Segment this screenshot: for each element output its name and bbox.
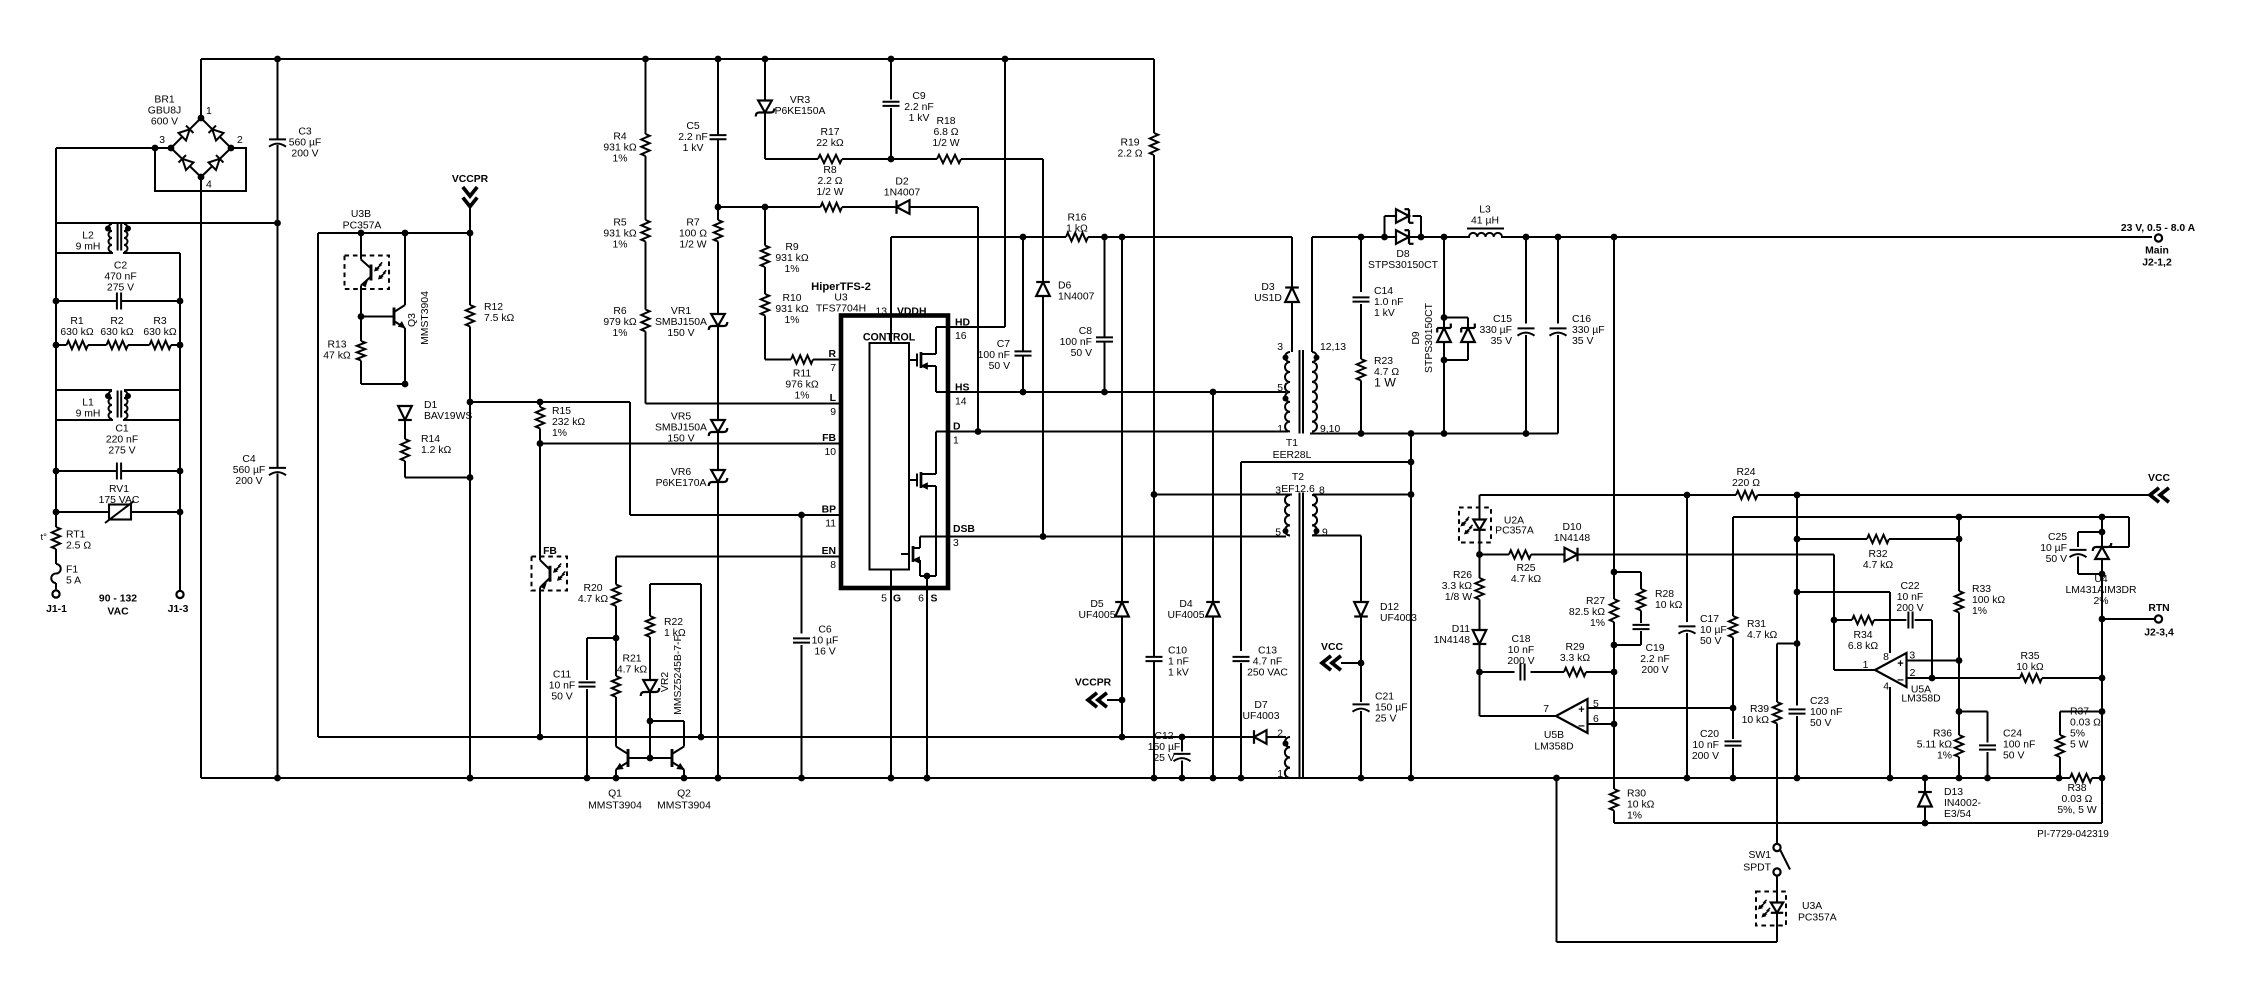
svg-text:4.7 kΩ: 4.7 kΩ bbox=[617, 664, 648, 675]
svg-text:R8: R8 bbox=[823, 165, 837, 176]
svg-text:R27: R27 bbox=[1586, 596, 1605, 607]
svg-text:1%: 1% bbox=[1972, 606, 1987, 617]
svg-text:R19: R19 bbox=[1120, 137, 1139, 148]
svg-text:1N4148: 1N4148 bbox=[1434, 635, 1471, 646]
svg-text:T1: T1 bbox=[1286, 438, 1298, 449]
svg-text:150 µF: 150 µF bbox=[1375, 702, 1408, 713]
svg-text:R34: R34 bbox=[1853, 630, 1872, 641]
svg-text:IN4002-: IN4002- bbox=[1944, 798, 1981, 809]
svg-text:100 kΩ: 100 kΩ bbox=[1972, 595, 2005, 606]
svg-text:560 µF: 560 µF bbox=[289, 137, 322, 148]
svg-text:C14: C14 bbox=[1374, 286, 1393, 297]
svg-text:10 µF: 10 µF bbox=[1700, 625, 1727, 636]
svg-text:U5B: U5B bbox=[1544, 730, 1564, 741]
svg-text:D10: D10 bbox=[1562, 522, 1581, 533]
svg-text:D3: D3 bbox=[1261, 282, 1275, 293]
svg-text:LM358D: LM358D bbox=[1901, 694, 1940, 705]
svg-text:50 V: 50 V bbox=[989, 361, 1010, 372]
svg-text:150 µF: 150 µF bbox=[1148, 742, 1181, 753]
svg-text:50 V: 50 V bbox=[1071, 348, 1092, 359]
svg-text:J2-1,2: J2-1,2 bbox=[2142, 258, 2172, 269]
svg-text:D12: D12 bbox=[1380, 602, 1399, 613]
svg-text:35 V: 35 V bbox=[1491, 336, 1512, 347]
svg-text:MMST3904: MMST3904 bbox=[588, 801, 642, 812]
svg-text:200 V: 200 V bbox=[1507, 656, 1534, 667]
svg-text:UF4005: UF4005 bbox=[1168, 610, 1205, 621]
svg-text:630 kΩ: 630 kΩ bbox=[143, 327, 176, 338]
svg-text:1%: 1% bbox=[784, 264, 799, 275]
svg-text:50 V: 50 V bbox=[1700, 636, 1721, 647]
svg-text:5: 5 bbox=[1275, 528, 1281, 539]
svg-text:1 kΩ: 1 kΩ bbox=[1066, 223, 1088, 234]
svg-text:R13: R13 bbox=[327, 339, 346, 350]
svg-text:1/2 W: 1/2 W bbox=[679, 239, 706, 250]
svg-text:U4: U4 bbox=[2094, 574, 2108, 585]
svg-text:560 µF: 560 µF bbox=[233, 465, 266, 476]
svg-text:C5: C5 bbox=[686, 121, 700, 132]
svg-text:275 V: 275 V bbox=[108, 445, 135, 456]
svg-text:150 V: 150 V bbox=[667, 433, 694, 444]
svg-text:US1D: US1D bbox=[1254, 293, 1282, 304]
svg-text:J1-1: J1-1 bbox=[46, 604, 67, 615]
svg-text:10 µF: 10 µF bbox=[2040, 543, 2067, 554]
svg-text:STPS30150CT: STPS30150CT bbox=[1424, 302, 1435, 373]
svg-text:BAV19WS: BAV19WS bbox=[424, 411, 472, 422]
svg-text:STPS30150CT: STPS30150CT bbox=[1368, 260, 1439, 271]
svg-text:1/8 W: 1/8 W bbox=[1445, 592, 1472, 603]
svg-text:5: 5 bbox=[881, 594, 887, 605]
svg-text:R15: R15 bbox=[552, 406, 571, 417]
svg-text:J1-3: J1-3 bbox=[168, 604, 189, 615]
svg-text:RTN: RTN bbox=[2148, 603, 2169, 614]
svg-text:SMBJ150A: SMBJ150A bbox=[655, 422, 707, 433]
svg-text:–: – bbox=[1578, 718, 1585, 732]
svg-text:R21: R21 bbox=[622, 653, 641, 664]
svg-text:C3: C3 bbox=[298, 126, 312, 137]
svg-text:PI-7729-042319: PI-7729-042319 bbox=[2037, 829, 2109, 840]
svg-text:D9: D9 bbox=[1411, 331, 1422, 345]
svg-text:L2: L2 bbox=[82, 230, 94, 241]
svg-text:C6: C6 bbox=[818, 624, 832, 635]
svg-text:VR2: VR2 bbox=[660, 672, 671, 692]
svg-text:931 kΩ: 931 kΩ bbox=[775, 304, 808, 315]
svg-text:VCCPR: VCCPR bbox=[452, 174, 489, 185]
svg-text:D5: D5 bbox=[1090, 599, 1104, 610]
svg-text:SPDT: SPDT bbox=[1743, 863, 1771, 874]
svg-text:LM431AIM3DR: LM431AIM3DR bbox=[2065, 585, 2137, 596]
svg-text:1N4148: 1N4148 bbox=[1554, 533, 1591, 544]
svg-text:R12: R12 bbox=[484, 302, 503, 313]
svg-text:1N4007: 1N4007 bbox=[884, 187, 921, 198]
svg-text:CONTROL: CONTROL bbox=[863, 332, 916, 344]
svg-text:220 nF: 220 nF bbox=[106, 434, 138, 445]
svg-text:3.3 kΩ: 3.3 kΩ bbox=[1560, 653, 1591, 664]
svg-text:C16: C16 bbox=[1572, 314, 1591, 325]
svg-text:GBU8J: GBU8J bbox=[148, 105, 182, 116]
svg-text:5 W: 5 W bbox=[2070, 739, 2089, 750]
svg-text:2.2 nF: 2.2 nF bbox=[678, 132, 707, 143]
svg-text:100 nF: 100 nF bbox=[1810, 707, 1842, 718]
svg-text:2%: 2% bbox=[2093, 596, 2108, 607]
svg-text:931 kΩ: 931 kΩ bbox=[775, 253, 808, 264]
svg-text:200 V: 200 V bbox=[235, 476, 262, 487]
svg-text:6: 6 bbox=[1593, 714, 1599, 725]
svg-text:C2: C2 bbox=[114, 260, 128, 271]
svg-text:F1: F1 bbox=[66, 564, 78, 575]
svg-text:P6KE170A: P6KE170A bbox=[656, 478, 707, 489]
svg-text:VR3: VR3 bbox=[790, 95, 810, 106]
svg-text:R10: R10 bbox=[782, 293, 801, 304]
svg-text:47 kΩ: 47 kΩ bbox=[323, 350, 351, 361]
svg-text:200 V: 200 V bbox=[291, 148, 318, 159]
svg-text:13: 13 bbox=[875, 307, 887, 318]
svg-text:C4: C4 bbox=[242, 454, 256, 465]
svg-text:EF12.6: EF12.6 bbox=[1281, 484, 1315, 495]
svg-text:L3: L3 bbox=[1479, 204, 1491, 215]
svg-text:3: 3 bbox=[159, 135, 165, 146]
svg-text:R24: R24 bbox=[1736, 467, 1755, 478]
svg-text:Q2: Q2 bbox=[677, 789, 691, 800]
svg-text:MMST3904: MMST3904 bbox=[657, 801, 711, 812]
svg-text:1/2 W: 1/2 W bbox=[932, 138, 959, 149]
svg-text:10: 10 bbox=[824, 447, 836, 458]
svg-text:R33: R33 bbox=[1972, 584, 1991, 595]
svg-text:Main: Main bbox=[2145, 246, 2169, 257]
svg-text:R22: R22 bbox=[664, 617, 683, 628]
svg-text:11: 11 bbox=[825, 519, 836, 530]
svg-text:R4: R4 bbox=[613, 131, 627, 142]
svg-text:250 VAC: 250 VAC bbox=[1247, 667, 1288, 678]
svg-text:25 V: 25 V bbox=[1375, 713, 1396, 724]
svg-text:10 nF: 10 nF bbox=[1897, 592, 1924, 603]
svg-text:SW1: SW1 bbox=[1748, 850, 1771, 861]
svg-text:330 µF: 330 µF bbox=[1479, 325, 1512, 336]
svg-text:VDDH: VDDH bbox=[897, 307, 926, 318]
svg-text:600 V: 600 V bbox=[151, 116, 178, 127]
svg-text:175 VAC: 175 VAC bbox=[99, 495, 140, 506]
svg-text:50 V: 50 V bbox=[2003, 750, 2024, 761]
svg-text:100 nF: 100 nF bbox=[978, 350, 1010, 361]
svg-text:C8: C8 bbox=[1079, 326, 1093, 337]
svg-text:U3: U3 bbox=[834, 293, 848, 304]
svg-text:275 V: 275 V bbox=[107, 282, 134, 293]
svg-text:RV1: RV1 bbox=[109, 484, 129, 495]
svg-text:1 W: 1 W bbox=[1374, 376, 1396, 390]
svg-text:1: 1 bbox=[206, 106, 212, 117]
svg-text:R26: R26 bbox=[1453, 570, 1472, 581]
svg-text:C22: C22 bbox=[1900, 581, 1919, 592]
svg-text:R17: R17 bbox=[820, 127, 839, 138]
svg-text:R20: R20 bbox=[583, 583, 602, 594]
svg-text:T2: T2 bbox=[1292, 472, 1304, 483]
svg-text:C19: C19 bbox=[1645, 643, 1664, 654]
svg-text:6: 6 bbox=[918, 594, 924, 605]
svg-text:100 Ω: 100 Ω bbox=[679, 228, 707, 239]
svg-text:100 nF: 100 nF bbox=[2003, 739, 2035, 750]
svg-text:UF4005: UF4005 bbox=[1079, 610, 1116, 621]
svg-text:8: 8 bbox=[830, 560, 836, 571]
svg-text:0.03 Ω: 0.03 Ω bbox=[2070, 717, 2101, 728]
svg-text:C12: C12 bbox=[1154, 731, 1173, 742]
svg-text:7: 7 bbox=[1543, 704, 1549, 715]
svg-text:9: 9 bbox=[1322, 528, 1328, 539]
svg-text:10 kΩ: 10 kΩ bbox=[1742, 715, 1770, 726]
svg-text:G: G bbox=[893, 594, 901, 605]
svg-text:100 nF: 100 nF bbox=[1060, 337, 1092, 348]
svg-text:200 V: 200 V bbox=[1692, 751, 1719, 762]
svg-text:C13: C13 bbox=[1258, 645, 1277, 656]
svg-text:16: 16 bbox=[955, 331, 967, 342]
svg-text:5 A: 5 A bbox=[66, 575, 81, 586]
svg-text:16 V: 16 V bbox=[814, 646, 835, 657]
svg-text:10 kΩ: 10 kΩ bbox=[1655, 600, 1683, 611]
svg-text:Q1: Q1 bbox=[608, 789, 622, 800]
svg-text:TFS7704H: TFS7704H bbox=[816, 304, 866, 315]
svg-text:R6: R6 bbox=[613, 306, 627, 317]
svg-text:R31: R31 bbox=[1747, 619, 1766, 630]
svg-text:C10: C10 bbox=[1168, 645, 1187, 656]
svg-text:R38: R38 bbox=[2067, 783, 2086, 794]
svg-text:L1: L1 bbox=[82, 397, 94, 408]
svg-text:+: + bbox=[1897, 658, 1903, 670]
svg-text:PC357A: PC357A bbox=[1798, 913, 1837, 924]
svg-text:C20: C20 bbox=[1700, 729, 1719, 740]
svg-text:1/2 W: 1/2 W bbox=[816, 187, 843, 198]
svg-text:10 nF: 10 nF bbox=[549, 680, 576, 691]
svg-text:–: – bbox=[1897, 672, 1904, 686]
svg-text:1 nF: 1 nF bbox=[1168, 656, 1189, 667]
svg-text:HiperTFS-2: HiperTFS-2 bbox=[811, 281, 871, 293]
svg-text:R16: R16 bbox=[1067, 212, 1086, 223]
svg-text:C24: C24 bbox=[2003, 728, 2022, 739]
svg-text:4.7 kΩ: 4.7 kΩ bbox=[1747, 630, 1778, 641]
svg-text:6.8 kΩ: 6.8 kΩ bbox=[1848, 641, 1879, 652]
svg-text:RT1: RT1 bbox=[66, 529, 86, 540]
svg-text:R1: R1 bbox=[70, 316, 84, 327]
svg-text:10 kΩ: 10 kΩ bbox=[2016, 662, 2044, 673]
svg-text:4.7 kΩ: 4.7 kΩ bbox=[578, 594, 609, 605]
svg-text:R18: R18 bbox=[936, 116, 955, 127]
svg-text:R30: R30 bbox=[1627, 788, 1646, 799]
svg-text:+: + bbox=[1578, 704, 1584, 716]
svg-text:4.7 kΩ: 4.7 kΩ bbox=[1511, 574, 1542, 585]
svg-text:R7: R7 bbox=[686, 217, 700, 228]
svg-text:FB: FB bbox=[822, 433, 836, 444]
svg-text:6.8 Ω: 6.8 Ω bbox=[933, 127, 958, 138]
svg-text:D11: D11 bbox=[1452, 624, 1471, 635]
svg-text:2: 2 bbox=[1277, 729, 1283, 740]
svg-text:4: 4 bbox=[1883, 682, 1889, 693]
svg-text:L: L bbox=[830, 393, 837, 404]
svg-text:10 kΩ: 10 kΩ bbox=[1627, 799, 1655, 810]
svg-text:P6KE150A: P6KE150A bbox=[775, 106, 826, 117]
svg-text:50 V: 50 V bbox=[1810, 718, 1831, 729]
svg-text:1: 1 bbox=[1277, 769, 1283, 780]
svg-text:2: 2 bbox=[237, 135, 243, 146]
svg-text:1 kV: 1 kV bbox=[1168, 667, 1189, 678]
svg-text:976 kΩ: 976 kΩ bbox=[785, 379, 818, 390]
svg-text:1.0 nF: 1.0 nF bbox=[1374, 297, 1403, 308]
svg-text:S: S bbox=[931, 594, 938, 605]
svg-text:23 V, 0.5 - 8.0 A: 23 V, 0.5 - 8.0 A bbox=[2121, 223, 2196, 234]
svg-text:3: 3 bbox=[1277, 342, 1283, 353]
svg-text:10 µF: 10 µF bbox=[812, 635, 839, 646]
svg-text:1%: 1% bbox=[552, 428, 567, 439]
svg-text:R: R bbox=[828, 349, 836, 360]
svg-text:R35: R35 bbox=[2020, 651, 2039, 662]
svg-text:C25: C25 bbox=[2048, 532, 2067, 543]
svg-text:1: 1 bbox=[1863, 660, 1869, 671]
svg-text:5%, 5 W: 5%, 5 W bbox=[2057, 805, 2096, 816]
svg-text:931 kΩ: 931 kΩ bbox=[603, 142, 636, 153]
svg-text:FB: FB bbox=[543, 546, 557, 557]
svg-text:25 V: 25 V bbox=[1153, 753, 1174, 764]
svg-text:4: 4 bbox=[206, 180, 212, 191]
svg-text:2.2 nF: 2.2 nF bbox=[904, 102, 933, 113]
svg-text:3: 3 bbox=[1275, 485, 1281, 496]
svg-text:2.2 Ω: 2.2 Ω bbox=[1117, 148, 1142, 159]
svg-text:10 nF: 10 nF bbox=[1692, 740, 1719, 751]
svg-text:LM358D: LM358D bbox=[1534, 742, 1573, 753]
svg-text:9: 9 bbox=[830, 407, 836, 418]
svg-text:1.2 kΩ: 1.2 kΩ bbox=[421, 445, 452, 456]
svg-text:5%: 5% bbox=[2070, 728, 2085, 739]
svg-text:5.11 kΩ: 5.11 kΩ bbox=[1917, 739, 1953, 750]
svg-text:200 V: 200 V bbox=[1641, 665, 1668, 676]
svg-text:R2: R2 bbox=[110, 316, 124, 327]
svg-text:50 V: 50 V bbox=[2046, 554, 2067, 565]
svg-text:0.03 Ω: 0.03 Ω bbox=[2062, 794, 2093, 805]
svg-text:7.5 kΩ: 7.5 kΩ bbox=[484, 313, 515, 324]
svg-text:VAC: VAC bbox=[107, 607, 129, 618]
svg-text:9 mH: 9 mH bbox=[76, 241, 101, 252]
svg-text:R23: R23 bbox=[1374, 356, 1393, 367]
svg-text:PC357A: PC357A bbox=[343, 221, 382, 232]
svg-text:41 µH: 41 µH bbox=[1471, 215, 1499, 226]
svg-text:Q3: Q3 bbox=[407, 313, 418, 327]
svg-text:630 kΩ: 630 kΩ bbox=[100, 327, 133, 338]
svg-text:220 Ω: 220 Ω bbox=[1732, 478, 1760, 489]
svg-text:SMBJ150A: SMBJ150A bbox=[655, 317, 707, 328]
svg-text:E3/54: E3/54 bbox=[1944, 809, 1971, 820]
svg-text:C18: C18 bbox=[1511, 634, 1530, 645]
svg-text:3: 3 bbox=[953, 538, 959, 549]
svg-text:R5: R5 bbox=[613, 217, 627, 228]
svg-text:470 nF: 470 nF bbox=[104, 271, 136, 282]
svg-text:1%: 1% bbox=[1590, 618, 1605, 629]
svg-text:R37: R37 bbox=[2070, 706, 2089, 717]
svg-text:22 kΩ: 22 kΩ bbox=[816, 138, 844, 149]
svg-text:10 nF: 10 nF bbox=[1508, 645, 1535, 656]
svg-text:VCCPR: VCCPR bbox=[1075, 678, 1112, 689]
svg-text:200 V: 200 V bbox=[1896, 603, 1923, 614]
svg-text:1%: 1% bbox=[612, 153, 627, 164]
svg-text:C7: C7 bbox=[997, 339, 1011, 350]
svg-text:1%: 1% bbox=[784, 315, 799, 326]
svg-text:5: 5 bbox=[1277, 383, 1283, 394]
svg-text:1N4007: 1N4007 bbox=[1058, 291, 1095, 302]
svg-text:1 kV: 1 kV bbox=[683, 143, 704, 154]
svg-text:C11: C11 bbox=[553, 669, 572, 680]
svg-text:D6: D6 bbox=[1058, 280, 1072, 291]
svg-text:9 mH: 9 mH bbox=[76, 408, 101, 419]
svg-text:VR5: VR5 bbox=[671, 411, 691, 422]
svg-text:R39: R39 bbox=[1750, 704, 1769, 715]
svg-text:1 kV: 1 kV bbox=[909, 113, 930, 124]
svg-text:90 - 132: 90 - 132 bbox=[99, 594, 137, 605]
svg-text:R25: R25 bbox=[1516, 563, 1535, 574]
svg-text:1%: 1% bbox=[794, 390, 809, 401]
svg-text:979 kΩ: 979 kΩ bbox=[603, 317, 636, 328]
svg-text:1%: 1% bbox=[612, 328, 627, 339]
svg-text:2.2 nF: 2.2 nF bbox=[1640, 654, 1669, 665]
svg-text:MMSZ5245B-7-F: MMSZ5245B-7-F bbox=[673, 635, 684, 715]
svg-text:3.3 kΩ: 3.3 kΩ bbox=[1442, 581, 1473, 592]
svg-text:1%: 1% bbox=[612, 239, 627, 250]
svg-text:MMST3904: MMST3904 bbox=[420, 291, 431, 345]
svg-text:R14: R14 bbox=[421, 434, 440, 445]
svg-text:1 kV: 1 kV bbox=[1374, 308, 1395, 319]
svg-text:330 µF: 330 µF bbox=[1572, 325, 1605, 336]
svg-text:4.7 nF: 4.7 nF bbox=[1253, 656, 1282, 667]
svg-text:D2: D2 bbox=[895, 176, 909, 187]
svg-text:R3: R3 bbox=[153, 316, 167, 327]
svg-text:82.5 kΩ: 82.5 kΩ bbox=[1569, 607, 1605, 618]
svg-text:150 V: 150 V bbox=[667, 328, 694, 339]
svg-text:VR1: VR1 bbox=[671, 306, 691, 317]
svg-text:14: 14 bbox=[955, 397, 967, 408]
svg-text:4.7 kΩ: 4.7 kΩ bbox=[1863, 560, 1894, 571]
svg-text:VCC: VCC bbox=[1321, 642, 1343, 653]
svg-text:D1: D1 bbox=[424, 400, 438, 411]
svg-text:VR6: VR6 bbox=[671, 467, 691, 478]
svg-text:1: 1 bbox=[1277, 424, 1283, 435]
svg-text:PC357A: PC357A bbox=[1495, 525, 1534, 536]
svg-text:t°: t° bbox=[41, 532, 48, 543]
svg-text:C1: C1 bbox=[115, 423, 129, 434]
svg-text:931 kΩ: 931 kΩ bbox=[603, 228, 636, 239]
svg-text:J2-3,4: J2-3,4 bbox=[2144, 628, 2174, 639]
svg-text:R11: R11 bbox=[793, 368, 812, 379]
svg-text:50 V: 50 V bbox=[551, 691, 572, 702]
svg-text:C21: C21 bbox=[1375, 691, 1394, 702]
svg-text:R32: R32 bbox=[1868, 549, 1887, 560]
svg-text:R9: R9 bbox=[785, 242, 799, 253]
svg-text:1%: 1% bbox=[1937, 750, 1952, 761]
svg-text:2.5 Ω: 2.5 Ω bbox=[66, 540, 91, 551]
svg-text:12,13: 12,13 bbox=[1320, 342, 1346, 353]
svg-text:232 kΩ: 232 kΩ bbox=[552, 417, 585, 428]
svg-text:1: 1 bbox=[953, 436, 959, 447]
svg-text:R29: R29 bbox=[1565, 642, 1584, 653]
svg-text:2.2 Ω: 2.2 Ω bbox=[817, 176, 842, 187]
svg-text:DSB: DSB bbox=[953, 524, 975, 535]
svg-text:1%: 1% bbox=[1627, 810, 1642, 821]
svg-text:C17: C17 bbox=[1700, 614, 1719, 625]
svg-text:R28: R28 bbox=[1655, 589, 1674, 600]
svg-text:C23: C23 bbox=[1810, 696, 1829, 707]
svg-text:VCC: VCC bbox=[2148, 473, 2170, 484]
svg-text:C15: C15 bbox=[1493, 314, 1512, 325]
svg-text:D4: D4 bbox=[1179, 599, 1193, 610]
svg-text:UF4003: UF4003 bbox=[1243, 711, 1280, 722]
svg-text:EER28L: EER28L bbox=[1273, 450, 1312, 461]
svg-text:U3B: U3B bbox=[351, 209, 371, 220]
svg-text:D7: D7 bbox=[1254, 700, 1268, 711]
svg-text:D8: D8 bbox=[1396, 249, 1410, 260]
svg-text:C9: C9 bbox=[912, 91, 926, 102]
svg-text:BP: BP bbox=[822, 505, 837, 516]
